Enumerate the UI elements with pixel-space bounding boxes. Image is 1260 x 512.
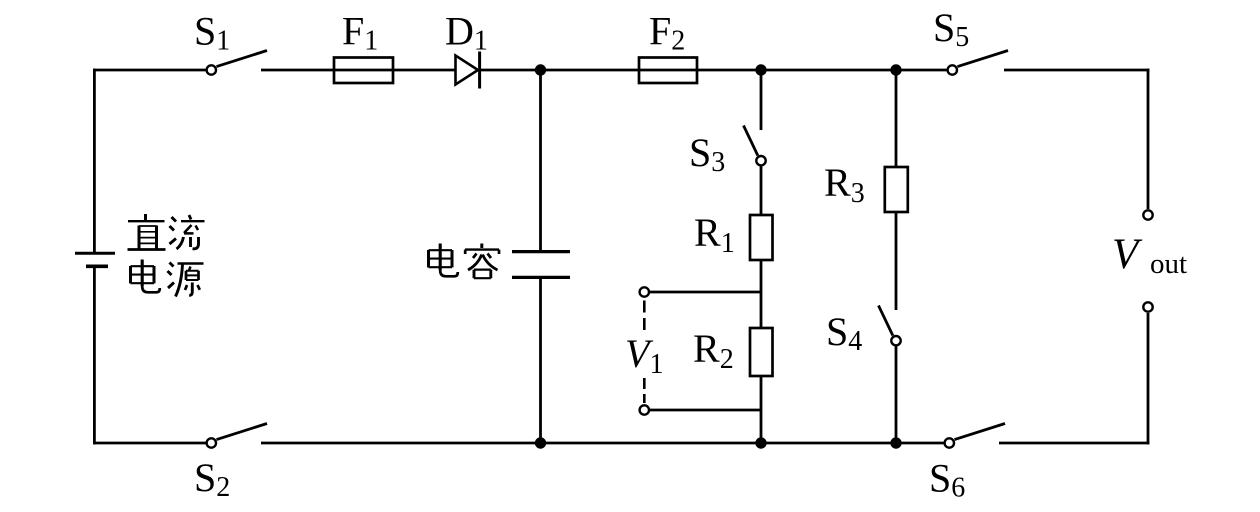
- wire top rail D1 to S5: [481, 69, 947, 72]
- wire R3 to S4: [895, 212, 898, 310]
- fuse F2: [639, 58, 697, 84]
- battery cell: long plate: [75, 252, 115, 255]
- resistor R1: [750, 215, 773, 260]
- svg-text:S6: S6: [929, 456, 965, 504]
- V1 bottom terminal: [640, 405, 649, 414]
- wire top rail S5 to right corner: [1004, 69, 1149, 72]
- svg-text:V1: V1: [625, 331, 663, 380]
- capacitor branch wire upper: [539, 70, 542, 250]
- V1 dashed lead lower: [643, 378, 646, 403]
- junction top of R3 branch: [890, 64, 901, 75]
- glyph 电 (of 电容): [429, 244, 458, 277]
- resistor R2: [750, 328, 773, 376]
- wire bottom rail S6 to right corner: [999, 442, 1149, 445]
- svg-text:S3: S3: [689, 130, 725, 178]
- wire bottom rail S2 to S6: [261, 442, 944, 445]
- wire top rail left segment: [93, 69, 206, 72]
- junction top of capacitor branch: [535, 64, 546, 75]
- switch S3: [744, 126, 766, 166]
- fuse F1: [334, 58, 393, 84]
- svg-text:S5: S5: [933, 5, 969, 53]
- switch S2: [207, 424, 267, 448]
- label 电容 (capacitor, hand-drawn glyphs): [429, 244, 500, 279]
- wire right rail upper: [1147, 69, 1150, 209]
- Vout top terminal: [1143, 210, 1152, 219]
- resistor R3: [885, 167, 908, 212]
- wire top rail S1 to D1: [261, 69, 456, 72]
- switch S4: [879, 306, 901, 346]
- V1 top terminal: [640, 287, 649, 296]
- svg-text:S1: S1: [194, 9, 230, 57]
- glyph 源: [168, 263, 204, 297]
- svg-text:R2: R2: [693, 326, 734, 375]
- svg-text:D1: D1: [445, 9, 488, 57]
- svg-text:R3: R3: [824, 160, 865, 209]
- switch S1: [207, 51, 267, 75]
- wire left rail lower: [93, 267, 96, 444]
- V1 dashed lead upper: [643, 301, 646, 332]
- switch S6: [945, 424, 1005, 448]
- junction bottom of capacitor branch: [535, 437, 546, 448]
- wire V1 top tap: [650, 291, 761, 294]
- svg-text:F2: F2: [649, 9, 685, 57]
- wire R2 to bottom rail: [760, 376, 763, 443]
- junction bottom of R3 branch: [890, 437, 901, 448]
- svg-text:Vout: Vout: [1112, 231, 1187, 280]
- junction bottom of R branch: [755, 437, 766, 448]
- glyph 直: [128, 214, 166, 250]
- battery cell: short thick plate: [86, 264, 108, 268]
- switch S5: [948, 51, 1008, 75]
- wire S3 to R1: [760, 166, 763, 215]
- svg-text:S2: S2: [194, 455, 230, 503]
- capacitor branch wire lower: [539, 279, 542, 443]
- Vout bottom terminal: [1143, 302, 1152, 311]
- wire R3 branch top: [895, 70, 898, 167]
- wire S4 to bottom rail: [895, 346, 898, 443]
- glyph 电 (of 电源): [131, 260, 160, 293]
- capacitor plates: [512, 250, 570, 253]
- wire bottom rail left segment: [93, 442, 206, 445]
- glyph 流: [170, 215, 205, 249]
- svg-text:F1: F1: [342, 9, 378, 57]
- label 直流电源 (DC source, hand-drawn glyphs): [128, 214, 205, 297]
- wire right rail lower: [1147, 313, 1150, 444]
- wire V1 bottom tap: [650, 409, 761, 412]
- wire R1 branch top: [760, 70, 763, 130]
- svg-text:S4: S4: [826, 309, 862, 357]
- svg-text:R1: R1: [694, 210, 735, 259]
- diode D1: [456, 52, 480, 89]
- junction top of R branch: [755, 64, 766, 75]
- wire left rail upper: [93, 69, 96, 252]
- wire R1 to R2: [760, 260, 763, 328]
- glyph 容: [465, 244, 499, 279]
